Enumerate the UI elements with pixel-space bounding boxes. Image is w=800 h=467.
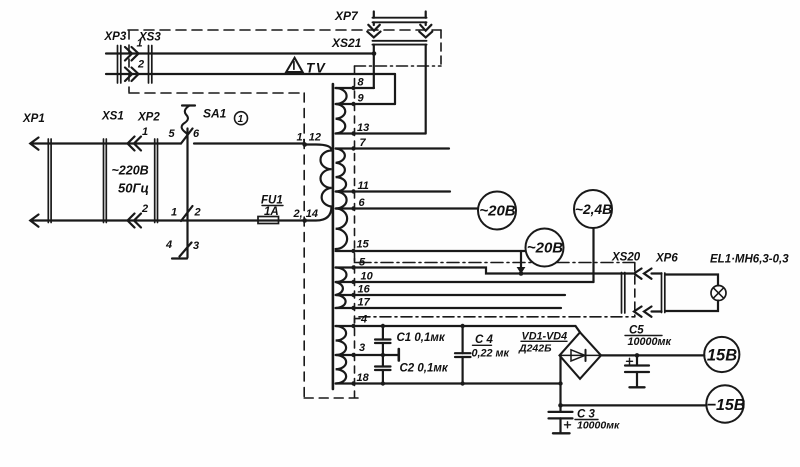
- svg-text:XS21: XS21: [331, 36, 362, 50]
- svg-text:6: 6: [359, 197, 366, 209]
- svg-text:2: 2: [194, 207, 201, 219]
- svg-text:50Гц: 50Гц: [118, 181, 149, 196]
- svg-text:6: 6: [193, 128, 200, 140]
- svg-text:15В: 15В: [707, 347, 737, 365]
- svg-text:1, 12: 1, 12: [297, 132, 321, 144]
- svg-text:1: 1: [238, 114, 244, 125]
- svg-text:XP2: XP2: [137, 112, 160, 124]
- svg-text:1: 1: [137, 38, 143, 50]
- svg-text:XP7: XP7: [334, 9, 359, 23]
- svg-text:4: 4: [165, 239, 172, 251]
- svg-text:9: 9: [358, 93, 365, 105]
- svg-text:XP6: XP6: [655, 253, 678, 265]
- svg-text:XS1: XS1: [101, 111, 124, 123]
- svg-text:13: 13: [357, 122, 369, 134]
- svg-text:~20В: ~20В: [527, 240, 563, 257]
- svg-text:С 4: С 4: [475, 334, 494, 346]
- svg-text:С2 0,1мк: С2 0,1мк: [400, 363, 449, 375]
- svg-text:TV: TV: [306, 61, 326, 76]
- svg-text:10: 10: [361, 271, 374, 283]
- svg-text:−15В: −15В: [707, 397, 746, 414]
- svg-text:VD1-VD4: VD1-VD4: [522, 331, 568, 343]
- svg-text:С5: С5: [629, 325, 644, 337]
- svg-text:~2,4В: ~2,4В: [575, 202, 612, 217]
- svg-text:8: 8: [358, 77, 365, 89]
- svg-text:11: 11: [358, 180, 369, 192]
- svg-text:18: 18: [357, 372, 370, 384]
- svg-text:1А: 1А: [264, 206, 279, 218]
- svg-text:1: 1: [142, 126, 148, 138]
- svg-text:FU1: FU1: [261, 195, 283, 207]
- svg-text:2, 14: 2, 14: [293, 208, 318, 220]
- svg-text:16: 16: [358, 284, 371, 296]
- svg-text:3: 3: [193, 240, 199, 252]
- svg-text:10000мк: 10000мк: [628, 336, 672, 348]
- svg-text:5: 5: [169, 128, 176, 140]
- svg-text:EL1·МН6,3-0,3: EL1·МН6,3-0,3: [710, 254, 789, 266]
- svg-text:17: 17: [358, 297, 371, 309]
- svg-text:10000мк: 10000мк: [577, 420, 620, 432]
- svg-text:3: 3: [359, 342, 365, 354]
- svg-text:5: 5: [359, 257, 366, 269]
- svg-text:7: 7: [360, 137, 367, 149]
- svg-text:2: 2: [137, 59, 144, 71]
- svg-text:XP1: XP1: [22, 113, 45, 125]
- svg-text:SA1: SA1: [203, 107, 227, 121]
- svg-text:~20В: ~20В: [479, 203, 515, 220]
- svg-text:~220В: ~220В: [112, 164, 149, 178]
- svg-text:0,22 мк: 0,22 мк: [472, 348, 510, 360]
- svg-text:15: 15: [357, 239, 370, 251]
- svg-text:XS20: XS20: [611, 252, 641, 264]
- svg-text:4: 4: [360, 314, 367, 326]
- svg-text:С1 0,1мк: С1 0,1мк: [397, 332, 446, 344]
- svg-text:1: 1: [171, 207, 177, 219]
- svg-text:XP3: XP3: [104, 31, 127, 43]
- svg-text:Д242Б: Д242Б: [518, 343, 552, 355]
- svg-text:2: 2: [141, 203, 148, 215]
